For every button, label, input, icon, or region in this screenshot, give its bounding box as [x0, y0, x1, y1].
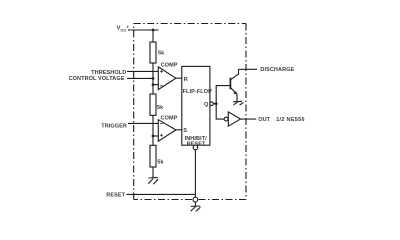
node Q junction — [215, 102, 218, 105]
label plus comp1 — [160, 70, 163, 73]
transistor Q1 base bar — [229, 78, 231, 90]
svg-text:OUT: OUT — [258, 117, 270, 123]
svg-text:S: S — [183, 128, 187, 134]
label minus comp1 — [160, 85, 163, 87]
wire GND stub — [194, 202, 196, 206]
resistor R1 5k — [150, 42, 156, 63]
svg-text:THRESHOLD: THRESHOLD — [91, 70, 126, 76]
wire comp2 plus — [153, 135, 158, 137]
wire Vcc input — [128, 29, 159, 31]
transistor Q1 collector — [230, 69, 238, 80]
resistor R2 5k — [150, 94, 156, 115]
svg-text:Q: Q — [204, 102, 209, 108]
svg-text:RESET: RESET — [187, 141, 206, 147]
svg-text:DISCHARGE: DISCHARGE — [260, 67, 294, 73]
resistor R3 5k — [150, 145, 156, 167]
wire R1 to node CV — [152, 63, 154, 94]
wire RESET input — [126, 193, 195, 195]
node comp2 plus tap — [152, 135, 155, 138]
wire R2 to R3 — [152, 115, 154, 145]
wire comp1 out to R — [176, 77, 182, 79]
label plus comp2 — [160, 134, 163, 137]
op-amp comparator 2 — [158, 120, 176, 142]
svg-text:R: R — [184, 77, 188, 83]
node control-voltage junction — [152, 77, 155, 80]
svg-text:TRIGGER: TRIGGER — [101, 123, 127, 129]
svg-text:1/2 NE556: 1/2 NE556 — [276, 117, 305, 123]
svg-text:CONTROL VOLTAGE: CONTROL VOLTAGE — [69, 76, 125, 82]
ground chain bottom — [148, 178, 158, 185]
svg-text:5k: 5k — [158, 51, 165, 57]
svg-text:RESET: RESET — [106, 193, 125, 199]
ground emitter — [233, 101, 244, 105]
IC boundary dash-dot box — [134, 24, 246, 200]
wire CONTROL VOLTAGE input — [127, 77, 153, 79]
ground GND pin — [191, 206, 201, 212]
transistor Q1 emitter with arrow — [230, 88, 237, 95]
inverter input bubble — [224, 117, 228, 121]
svg-text:COMP: COMP — [161, 116, 178, 122]
wire Q to transistor base — [216, 86, 230, 104]
svg-text:5k: 5k — [157, 159, 164, 165]
wire Q out — [213, 103, 216, 105]
wire comp2 out to S — [176, 129, 182, 131]
wire DISCHARGE — [239, 68, 258, 70]
label Vcc — [117, 24, 130, 32]
wire emitter stub — [236, 94, 238, 101]
svg-text:+: + — [126, 24, 129, 29]
svg-text:COMP: COMP — [161, 63, 178, 69]
flip-flop box U1 — [182, 66, 210, 145]
node comp1 minus tap — [152, 83, 155, 86]
svg-text:5k: 5k — [157, 105, 164, 111]
wire THRESHOLD input — [127, 70, 158, 72]
wire comp1 minus — [153, 84, 158, 86]
op-amp comparator 1 — [158, 67, 176, 90]
wire TRIGGER input — [128, 122, 158, 124]
inverter buffer — [228, 112, 240, 126]
wire OUT — [241, 118, 257, 120]
pin Q output bubble — [210, 102, 214, 106]
wire Q to inverter — [216, 104, 224, 119]
svg-text:FLIP-FLOP: FLIP-FLOP — [183, 89, 213, 95]
wire chain top — [152, 30, 154, 42]
pin GND terminal circle — [193, 197, 198, 202]
label minus comp2 — [160, 122, 163, 124]
wire inhibit/reset down — [194, 150, 196, 197]
node Vcc junction — [152, 29, 155, 32]
wire R3 to ground — [152, 167, 154, 178]
pin inhibit bubble under flip-flop — [193, 145, 198, 150]
